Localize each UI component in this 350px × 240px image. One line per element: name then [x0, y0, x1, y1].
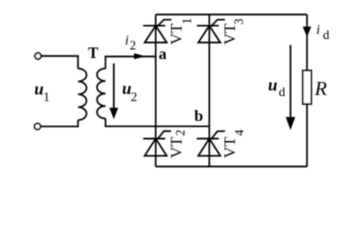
svg-text:d: d	[323, 27, 330, 42]
svg-text:3: 3	[232, 19, 246, 25]
svg-text:2: 2	[131, 89, 138, 104]
svg-text:b: b	[194, 108, 203, 125]
transformer T secondary winding	[97, 69, 106, 119]
svg-text:2: 2	[174, 130, 188, 136]
arrow id	[303, 27, 312, 37]
thyristor VT3	[197, 20, 225, 43]
svg-text:d: d	[279, 84, 286, 99]
svg-text:i: i	[125, 33, 129, 48]
wire primary top	[41, 56, 78, 69]
thyristor VT1	[143, 20, 171, 43]
resistor R	[303, 71, 312, 105]
svg-text:2: 2	[130, 39, 136, 53]
svg-text:VT: VT	[169, 137, 186, 159]
thyristor VT2	[143, 131, 171, 156]
arrow i2	[134, 53, 146, 59]
wire right bridge leg	[208, 15, 210, 167]
thyristor VT4	[197, 131, 225, 156]
svg-text:4: 4	[233, 129, 247, 136]
svg-text:R: R	[314, 78, 327, 100]
wire secondary top stub to node a	[106, 57, 156, 69]
svg-text:u: u	[268, 76, 277, 95]
arrow ud	[290, 45, 292, 118]
transformer T primary winding	[78, 69, 87, 121]
arrow u2	[113, 63, 115, 109]
terminal top-left	[35, 53, 41, 59]
svg-text:VT: VT	[222, 137, 239, 159]
svg-text:1: 1	[43, 89, 50, 104]
svg-text:VT: VT	[222, 23, 239, 45]
svg-text:VT: VT	[169, 23, 186, 45]
svg-text:T: T	[88, 45, 99, 62]
wire left bridge leg	[155, 15, 157, 167]
wire primary bottom	[41, 120, 78, 126]
wire bottom bus	[156, 166, 307, 168]
wire top bus	[156, 14, 307, 16]
terminal bottom-left	[35, 123, 41, 129]
wire load branch bottom	[306, 104, 308, 167]
svg-text:1: 1	[180, 18, 194, 24]
wire secondary bottom to node b	[106, 119, 210, 127]
svg-text:a: a	[159, 46, 167, 63]
svg-text:i: i	[316, 22, 320, 37]
wire load branch top	[306, 15, 308, 71]
